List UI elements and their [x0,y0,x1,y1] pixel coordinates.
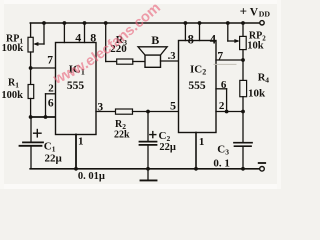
svg-text:6: 6 [221,79,227,91]
svg-text:.3: .3 [168,51,176,62]
resistor R1 [30,68,32,85]
wire: pin 3 of IC1 to R2 [96,111,116,113]
svg-text:4: 4 [75,31,81,45]
node: RP2 top on rail [241,21,245,25]
ground [147,169,149,180]
svg-text:3: 3 [97,102,103,114]
wire: pin 7 of IC1 [31,67,56,69]
svg-text:0. 01µ: 0. 01µ [78,171,105,182]
IC U2: 555 timer IC2 [179,41,217,133]
node: IC1 pin1 on ground [74,167,78,171]
wire: speaker to pin 3 of IC2 [161,60,179,62]
svg-text:B: B [151,33,159,47]
output terminal [260,167,265,172]
wire: pin 1 of IC2 to ground [195,133,197,169]
node: RP1 wiper on rail [42,21,46,25]
node: IC2 pin4 on rail [198,21,202,25]
svg-text:2: 2 [219,100,225,112]
node: IC1 pin4 on rail [63,21,67,25]
wire: pin 2 of IC1 [46,93,56,95]
wire: bottom ground rail [30,168,260,170]
svg-text:0. 1: 0. 1 [213,158,230,170]
svg-text:2: 2 [48,83,54,95]
svg-text:V: V [250,6,259,18]
svg-text:5: 5 [170,98,176,112]
paper background [0,0,281,189]
capacitor C2 [147,112,149,141]
node: C2 on ground [146,167,150,171]
C1 plus sign [34,132,41,134]
minus mark [259,162,266,164]
svg-text:1: 1 [199,136,205,148]
node: R1/pin6/C1 [29,115,33,119]
svg-text:22k: 22k [114,129,130,140]
wire: pin 4 of IC1 to rail [63,23,65,43]
node: IC2 pin8 on rail [184,21,188,25]
wire: +V top rail [30,22,259,24]
node A: RP1/R1/pin7 [29,66,33,70]
svg-text:22µ: 22µ [45,153,63,165]
C2 plus sign [150,134,156,136]
wire: pin 6 of IC1 [31,116,56,118]
potentiometer RP1 [30,23,32,37]
svg-text:10k: 10k [247,40,264,51]
node: pin2 drop on pin6 wire [44,115,48,119]
wire: pin 2 of IC2 to R4/C3 node [216,111,243,113]
node: R3 on rail [104,21,108,25]
svg-text:555: 555 [188,80,206,92]
wire: pin 4 of IC2 to rail [199,23,201,41]
IC U1: 555 timer IC1 [56,43,97,135]
svg-text:DD: DD [259,10,271,19]
node: pin7/RP2/R4 [241,58,245,62]
wire: RP1 bottom to node A [30,52,32,68]
watermark www.elecfans.com (decorative, single diagonal band) [50,0,164,88]
svg-text:7: 7 [217,51,223,63]
svg-text:1: 1 [78,135,84,147]
resistor R4 [240,80,247,96]
node: C3 on ground [241,167,245,171]
node: RP2 wiper on rail [226,21,230,25]
svg-text:4: 4 [210,33,217,47]
svg-text:100k: 100k [2,43,24,54]
svg-text:8: 8 [90,30,96,44]
svg-text:8: 8 [188,33,194,47]
svg-text:7: 7 [47,55,53,67]
svg-text:6: 6 [48,97,54,109]
wire: pin 8 of IC1 to rail [84,23,86,43]
resistor R2 [116,109,133,114]
speaker B [145,55,161,67]
node: IC2 pin1 on ground [194,167,198,171]
capacitor C1 [30,117,32,142]
potentiometer RP2 [242,23,244,36]
svg-text:100k: 100k [1,90,23,101]
svg-text:22µ: 22µ [159,142,176,153]
node: IC1 pin8 on rail [83,21,87,25]
wire: R3 to speaker [133,61,145,63]
svg-text:+: + [240,4,247,19]
wire: RP1 wiper to +V rail [36,43,45,45]
capacitor C3 [242,112,244,143]
wire: R2 to pin 5 of IC2 [133,111,179,113]
+VDD terminal [260,21,264,25]
node: pin2/R4/C3 [241,110,245,114]
svg-text:10k: 10k [248,88,266,100]
node: pin6 drop on pin2 wire [225,110,229,114]
wire: RP2 wiper to +V rail [227,23,229,41]
wire: pin 8 of IC2 to rail [184,23,186,41]
node: R2/C2 [146,110,150,114]
wire: pin 1 of IC1 to ground [75,135,77,169]
wire: RP2 to R4 [242,50,244,81]
wire: pin 7 of IC2 to RP2/R4 node [216,59,243,61]
wire: pin 6 of IC2 [216,88,227,90]
resistor R3 [105,23,107,62]
